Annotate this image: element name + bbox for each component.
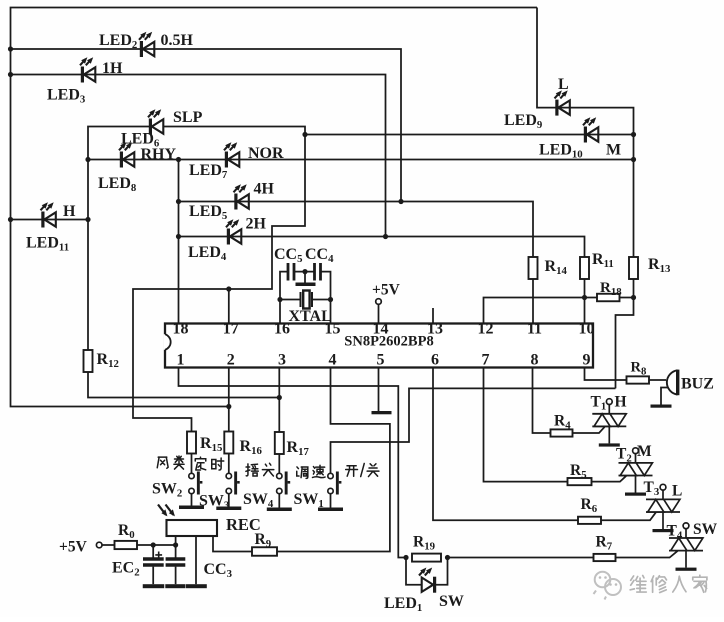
LED11 H indicator	[41, 202, 56, 227]
ground below CC5 CC4 midpoint	[296, 283, 316, 287]
svg-text:LED11: LED11	[26, 235, 69, 254]
svg-text:R9: R9	[255, 531, 272, 550]
LED6 SLP indicator	[148, 109, 163, 134]
resistor R11	[580, 257, 589, 279]
wire pin 12 up and across to R11 node	[484, 298, 598, 324]
wire +5V terminal to pin 14	[378, 304, 380, 323]
wire R11 bottom to pin 10	[584, 279, 586, 324]
wire pin 2 down to R16	[228, 368, 230, 432]
LED8 RHY indicator	[119, 142, 134, 167]
LED1 SW indicator	[419, 568, 435, 593]
svg-text:R19: R19	[413, 534, 436, 553]
wire H row from left rail through LED11 to x88 rail	[11, 219, 89, 221]
wire R6 to T3 gate	[601, 512, 656, 520]
resistor R7	[594, 554, 616, 561]
LED3 1H indicator	[80, 57, 95, 82]
wire buzzer lower terminal to ground	[661, 388, 668, 405]
svg-text:SW4: SW4	[243, 491, 274, 510]
resistor R15	[187, 432, 196, 454]
wire SW1 net across to SW1 switch	[331, 388, 616, 473]
ground below REC	[186, 584, 207, 588]
svg-text:R14: R14	[545, 258, 568, 277]
svg-text:NOR: NOR	[248, 145, 284, 162]
ground below EC2	[143, 584, 165, 588]
svg-text:H: H	[63, 203, 76, 220]
switch SW1 pushbutton	[328, 472, 342, 495]
LED5 4H indicator	[234, 184, 249, 209]
svg-text:SN8P2602BP8: SN8P2602BP8	[344, 334, 433, 350]
ground below SW4	[267, 508, 292, 512]
wire pin 8 down and to R4	[533, 368, 551, 434]
resistor R18	[597, 294, 620, 302]
wire +5V terminal to R0	[102, 544, 115, 546]
triac T4	[669, 523, 703, 571]
wire LED1 parallel loop	[406, 558, 448, 585]
label 摇头 (oscillate) above SW4	[246, 463, 274, 476]
svg-text:13: 13	[427, 321, 443, 338]
wire pin 1 long net down to LED1 R19 row	[179, 368, 407, 558]
svg-text:RHY: RHY	[141, 146, 177, 163]
capacitor CC4	[315, 263, 321, 281]
wire pin 7 down and to R5	[484, 368, 568, 482]
svg-text:R12: R12	[97, 351, 119, 370]
+5V supply terminal left	[96, 542, 102, 548]
capacitor EC2 electrolytic	[143, 559, 164, 565]
switch SW2 pushbutton	[189, 472, 203, 495]
svg-text:R17: R17	[287, 439, 310, 458]
svg-text:LED9: LED9	[504, 112, 543, 131]
label 调速 (speed) above SW1	[297, 465, 325, 478]
ground below buzzer	[651, 405, 672, 408]
ground below SW2	[179, 506, 204, 510]
svg-text:R16: R16	[240, 438, 263, 457]
svg-text:M: M	[637, 443, 652, 460]
svg-text:R15: R15	[200, 435, 222, 454]
resistor R6	[578, 517, 601, 524]
watermark text 维修人家	[630, 575, 707, 592]
svg-text:SLP: SLP	[173, 109, 203, 126]
wire crystal mid-cap ground stem	[304, 272, 306, 283]
capacitor CC3	[166, 559, 186, 565]
svg-text:2: 2	[227, 352, 235, 369]
wire crystal row left	[280, 299, 301, 301]
svg-text:M: M	[606, 142, 621, 159]
svg-text:SW1: SW1	[294, 491, 324, 510]
wire R13 bottom to node	[633, 279, 635, 298]
svg-text:17: 17	[223, 321, 239, 338]
svg-text:10: 10	[579, 321, 595, 338]
wire REC supply pin	[175, 536, 177, 545]
wire LED2 0.5H row from left rail to 4H row junction	[11, 49, 402, 202]
wire R15 bottom to SW2	[191, 454, 193, 474]
+5V supply terminal at pin 14	[376, 299, 382, 305]
svg-text:L: L	[558, 76, 569, 93]
svg-text:14: 14	[373, 321, 389, 338]
LED2 0.5H indicator	[139, 32, 154, 57]
svg-text:7: 7	[482, 352, 490, 369]
triac T3	[646, 484, 680, 532]
svg-text:SW2: SW2	[152, 481, 182, 500]
svg-text:18: 18	[173, 321, 189, 338]
wire R14 bottom to pin 11	[532, 279, 534, 324]
wire SW4 bottom to ground	[278, 494, 280, 508]
LED7 NOR indicator	[224, 142, 239, 167]
svg-text:12: 12	[478, 321, 494, 338]
label 风类 (fan type) above SW2	[157, 456, 184, 469]
wire SW2 bottom to ground	[191, 494, 193, 506]
wire top bus and left rail from LED9 feed corner to pin 2 column	[11, 8, 538, 407]
wire pin 3 down to R17	[278, 368, 280, 433]
resistor R0	[115, 541, 138, 549]
ground below CC3	[165, 584, 185, 588]
triac T2	[619, 448, 653, 496]
wire R4 to T1 gate	[573, 427, 605, 433]
wire EC2 top lead	[152, 545, 154, 558]
svg-text:LED8: LED8	[98, 175, 137, 194]
wire REC ground pin	[195, 536, 197, 584]
svg-text:EC2: EC2	[112, 560, 140, 579]
resistor R12	[84, 350, 93, 372]
ground below SW3	[216, 507, 241, 511]
svg-text:R11: R11	[592, 251, 614, 270]
svg-text:LED2: LED2	[99, 32, 137, 51]
svg-text:BUZ: BUZ	[681, 376, 714, 393]
svg-text:H: H	[615, 394, 627, 411]
svg-text:4: 4	[329, 352, 337, 369]
crystal XTAL	[301, 291, 313, 309]
resistor R16	[224, 432, 233, 454]
svg-text:0.5H: 0.5H	[161, 32, 194, 49]
wire RHY NOR row from x88 rail across to R13 column	[88, 159, 634, 161]
wire SLP net: LED6 right side down, across, down to R15	[133, 127, 305, 432]
wire LED10 M row from SLP-net junction to R13 column	[305, 134, 634, 136]
label 开/关 (on/off) above SW1 wire	[346, 463, 379, 476]
wire CC3 top lead	[175, 545, 177, 558]
svg-text:R8: R8	[631, 360, 647, 378]
svg-text:5: 5	[377, 352, 385, 369]
wire LED6 left side to x88 rail down to R12	[88, 127, 151, 351]
ground below pin 5	[372, 411, 392, 414]
watermark logo	[594, 572, 622, 600]
svg-text:R7: R7	[596, 534, 613, 553]
IR arrows into REC	[158, 505, 166, 516]
svg-text:T3: T3	[644, 479, 660, 498]
label 定时 (timer) above SW3	[195, 457, 224, 470]
svg-text:3: 3	[278, 352, 286, 369]
wire 4H row from pin18 column to R14 drop	[179, 202, 534, 258]
svg-text:XTAL: XTAL	[289, 308, 332, 325]
resistor R9	[252, 547, 277, 556]
svg-text:8: 8	[531, 352, 539, 369]
svg-text:9: 9	[583, 352, 591, 369]
wire pin 5 to ground	[378, 368, 380, 412]
svg-text:LED7: LED7	[189, 162, 228, 181]
wire CC3 bottom lead	[175, 567, 177, 585]
resistor R5	[568, 478, 592, 485]
wire R13 node down-left-down to SW1 net wire	[616, 298, 634, 389]
wire pin 4 down to REC/R9 line	[277, 368, 390, 552]
capacitor CC5	[288, 263, 294, 281]
svg-text:LED5: LED5	[189, 203, 227, 222]
resistor R4	[551, 429, 573, 436]
wire R17 bottom to SW4	[278, 454, 280, 474]
wire SW3 bottom to ground	[228, 494, 230, 507]
svg-text:R5: R5	[570, 462, 587, 481]
LED10 M indicator	[583, 117, 598, 142]
switch SW3 pushbutton	[226, 472, 240, 495]
wire pin 17 column from SLP-net junction down to IC	[228, 289, 230, 324]
svg-text:4H: 4H	[254, 181, 275, 198]
svg-text:L: L	[672, 483, 682, 500]
IC U1 SN8P2602BP8 body	[165, 324, 593, 368]
svg-text:CC5: CC5	[274, 246, 303, 265]
svg-text:LED3: LED3	[47, 87, 86, 106]
wire R16 bottom to SW3	[228, 454, 230, 474]
wire crystal loop left rail to pin 16	[280, 272, 288, 324]
svg-text:SW: SW	[693, 521, 718, 538]
LED4 2H indicator	[226, 219, 241, 244]
wire LED3 1H row from left rail to 2H row junction	[11, 75, 386, 237]
IR receiver REC body	[167, 520, 218, 536]
wire R5 to T2 gate	[592, 476, 627, 482]
wire pin 9 to R8	[585, 368, 627, 381]
wire SW1 bottom to ground	[330, 494, 332, 508]
resistor R17	[275, 432, 284, 454]
wire LED9 anode feed from top bus down and LED9 row to R13 column	[537, 8, 634, 258]
wire pin 6 down and to R6	[433, 368, 578, 521]
svg-text:R18: R18	[600, 280, 622, 298]
svg-text:1H: 1H	[102, 60, 123, 77]
switch SW4 pushbutton	[277, 472, 291, 495]
svg-text:11: 11	[527, 321, 542, 338]
ground below SW1	[318, 508, 343, 512]
svg-text:CC3: CC3	[204, 561, 233, 580]
wire crystal row right	[312, 299, 331, 301]
resistor R13	[629, 257, 638, 279]
svg-text:2H: 2H	[246, 216, 267, 233]
svg-text:+5V: +5V	[372, 282, 401, 299]
resistor R8	[627, 376, 650, 383]
svg-text:LED4: LED4	[188, 244, 227, 263]
wire R0 to REC supply pin with cap taps	[137, 544, 176, 546]
svg-text:SW3: SW3	[199, 493, 230, 512]
svg-text:R6: R6	[581, 496, 598, 515]
wire crystal loop right rail to pin 15	[321, 272, 331, 324]
svg-text:R13: R13	[648, 256, 671, 275]
buzzer BUZ	[667, 370, 678, 394]
resistor R14	[529, 257, 538, 279]
wire pin 18 column from RHY row down to IC	[178, 160, 180, 324]
svg-text:R4: R4	[554, 413, 571, 432]
wire R9 to REC output pin	[213, 536, 252, 552]
svg-text:T1: T1	[591, 394, 607, 413]
triac T1	[592, 399, 626, 447]
wire R8 to buzzer	[649, 379, 666, 381]
svg-text:+5V: +5V	[59, 539, 88, 556]
wire crystal loop middle between CC5 and CC4	[294, 271, 315, 273]
svg-text:CC4: CC4	[305, 246, 334, 265]
svg-text:T4: T4	[667, 523, 683, 542]
resistor R19	[412, 554, 441, 562]
wire R18 right to R13 node	[620, 297, 634, 299]
wire EC2 bottom lead	[152, 567, 154, 585]
LED9 L indicator	[555, 90, 570, 115]
svg-text:R0: R0	[118, 522, 135, 541]
svg-text:SW: SW	[439, 593, 464, 610]
junction dots	[8, 46, 13, 51]
wire pin 13 stub	[432, 308, 434, 324]
wire 2H row from pin18 column to R11 drop	[179, 237, 585, 258]
svg-text:T2: T2	[616, 446, 632, 465]
svg-text:LED1: LED1	[384, 595, 422, 614]
wire R7 to T4 gate	[616, 551, 678, 558]
wire R12 bottom across to pin 3 column	[88, 371, 279, 398]
wire R19 row to R7	[448, 557, 594, 559]
svg-text:1: 1	[177, 352, 185, 369]
svg-text:6: 6	[431, 352, 439, 369]
svg-text:LED10: LED10	[539, 142, 583, 161]
